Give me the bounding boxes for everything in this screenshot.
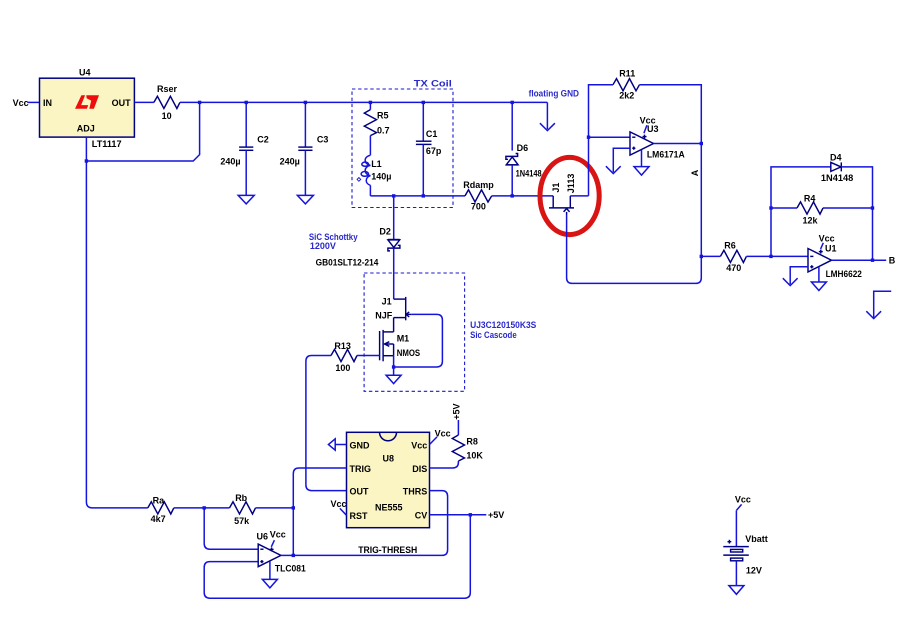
label GB01SLT12-214 <box>316 257 379 267</box>
svg-text:NE555: NE555 <box>375 502 403 512</box>
svg-text:240µ: 240µ <box>220 156 240 166</box>
svg-text:C1: C1 <box>426 129 438 139</box>
wire U3 output to feedback vertical <box>654 143 702 145</box>
svg-text:+5V: +5V <box>452 404 462 420</box>
svg-text:Vcc: Vcc <box>330 499 346 509</box>
wire Rdamp to J113 drain <box>492 195 554 197</box>
svg-text:D2: D2 <box>379 227 391 237</box>
svg-text:Vbatt: Vbatt <box>745 534 768 544</box>
svg-text:UJ3C120150K3S: UJ3C120150K3S <box>470 320 536 330</box>
node floating GND label <box>529 88 580 98</box>
svg-text:LM6171A: LM6171A <box>647 150 685 160</box>
svg-text:57k: 57k <box>234 516 250 526</box>
label UJ3C120150K3S Sic Cascode <box>470 320 536 340</box>
svg-text:GB01SLT12-214: GB01SLT12-214 <box>316 257 379 267</box>
svg-text:R8: R8 <box>466 436 478 446</box>
diode D6 1N4148 (schottky, cathode up) <box>506 143 542 178</box>
junction D2 branch <box>392 194 395 197</box>
floating ground arrow below node B <box>866 291 891 318</box>
wire R4 row <box>771 207 873 209</box>
wire top rail: Rser to floating-gnd corner <box>180 101 548 103</box>
svg-text:LMH6622: LMH6622 <box>826 269 862 279</box>
svg-text:ADJ: ADJ <box>77 123 95 133</box>
svg-text:Vcc: Vcc <box>735 495 751 505</box>
svg-text:1N4148: 1N4148 <box>516 169 542 179</box>
junction U1 output <box>871 259 874 262</box>
floating ground arrow at U3 + input <box>606 166 621 173</box>
diode D2 GB01SLT12-214 (SiC schottky, cathode down) <box>379 227 400 251</box>
junction D6 bottom <box>511 194 514 197</box>
svg-text:D6: D6 <box>517 143 529 153</box>
svg-text:B: B <box>889 256 896 266</box>
wire U1 output to node B <box>832 259 887 261</box>
wire D6 to Rdamp row <box>511 165 513 196</box>
junction C3 top <box>304 101 307 104</box>
wire Vcc diagonal to Vbatt <box>737 504 742 510</box>
resistor R11 <box>613 69 640 101</box>
svg-text:U3: U3 <box>647 124 659 134</box>
svg-text:TRIG: TRIG <box>350 464 372 474</box>
wire divider node down to U6 - input <box>204 508 258 549</box>
junction U3 - input <box>587 136 590 139</box>
svg-text:R4: R4 <box>804 194 816 204</box>
svg-text:OUT: OUT <box>350 486 370 496</box>
svg-text:C3: C3 <box>317 135 329 145</box>
ground below U3 <box>634 150 649 175</box>
wire OUT pin of U4 to Rser <box>134 101 154 103</box>
ground below C3 <box>297 195 313 204</box>
junction U3 output <box>700 142 703 145</box>
svg-text:IN: IN <box>43 98 52 108</box>
svg-text:0.7: 0.7 <box>377 126 390 136</box>
wire D2 to J1 drain <box>393 248 395 299</box>
wire feedback left vertical (D4/R4 to - input) <box>771 167 831 257</box>
op-amp U1 LMH6622 <box>808 233 862 279</box>
diode D4 1N4148 <box>821 152 853 183</box>
junction U1 - input <box>769 255 772 258</box>
ground below U1 <box>811 267 826 291</box>
svg-text:4k7: 4k7 <box>151 514 166 524</box>
node B <box>889 256 896 266</box>
svg-text:DIS: DIS <box>412 464 427 474</box>
ground below U6 <box>262 561 277 588</box>
svg-text:M1: M1 <box>397 334 410 344</box>
junction R4 left <box>769 206 772 209</box>
svg-text:Vcc: Vcc <box>819 233 835 243</box>
junction node A / R6 <box>700 255 703 258</box>
svg-text:2k2: 2k2 <box>619 91 634 101</box>
junction OUT node <box>198 101 201 104</box>
svg-text:A: A <box>690 169 700 176</box>
svg-text:TLC081: TLC081 <box>275 563 306 573</box>
svg-text:RST: RST <box>350 511 369 521</box>
svg-text:Ra: Ra <box>153 495 165 505</box>
port arrow at U8 GND pin <box>328 439 346 450</box>
junction R4 right <box>871 206 874 209</box>
svg-text:10K: 10K <box>466 450 483 460</box>
floating ground arrow at U1 + input <box>783 278 798 285</box>
wire U6 output to threshold net <box>281 554 293 556</box>
svg-text:floating GND: floating GND <box>529 88 580 98</box>
capacitor C1 <box>416 102 442 195</box>
svg-text:J1: J1 <box>551 183 561 193</box>
node Vcc above Vbatt <box>735 495 751 505</box>
svg-text:+5V: +5V <box>488 510 504 520</box>
svg-text:R13: R13 <box>334 341 351 351</box>
svg-text:12k: 12k <box>803 216 819 226</box>
svg-text:67p: 67p <box>426 146 442 156</box>
wire U3 output vertical down to R6/gate loop <box>700 144 702 257</box>
junction divider node <box>203 506 206 509</box>
JFET J1 J113 (rotated, gate down) <box>549 174 576 215</box>
TX Coil dashed box <box>352 78 453 207</box>
wire CV node down and bottom loop to U6 + input <box>204 515 470 598</box>
node Vcc at U8 Vcc pin <box>435 429 451 439</box>
ground below Vbatt <box>729 586 744 595</box>
junction M1 source <box>392 365 395 368</box>
svg-text:J1: J1 <box>382 297 392 307</box>
red ellipse annotation around J113 <box>540 157 599 234</box>
wire jog from OUT node down to ADJ feedback <box>86 102 199 161</box>
wire J1 gate to M1 source <box>394 314 443 367</box>
svg-text:TRIG-THRESH: TRIG-THRESH <box>358 545 417 555</box>
svg-text:700: 700 <box>471 202 486 212</box>
svg-text:Vcc: Vcc <box>270 529 286 539</box>
junction ADJ node <box>85 159 88 162</box>
wire R13 to M1 gate <box>357 355 380 357</box>
wire Vcc to IN pin of U4 <box>28 101 40 103</box>
wire top rail tap to D6 <box>511 102 513 150</box>
svg-text:Rser: Rser <box>157 84 178 94</box>
wire U3 non-inverting input to floating gnd arrow <box>613 148 630 172</box>
svg-text:12V: 12V <box>746 566 762 576</box>
ground below C2 <box>238 195 254 204</box>
node +5V at CV <box>488 510 504 520</box>
node Vcc at U8 RST pin <box>330 499 346 509</box>
wire Rb to TRIG vertical <box>256 507 294 509</box>
resistor R13 <box>331 341 357 373</box>
wire U8 Vcc pin diagonal <box>430 437 438 445</box>
wire Ra to Rb <box>174 507 230 509</box>
wire U8 TRIG down to threshold net <box>293 468 346 555</box>
svg-text:Vcc: Vcc <box>435 429 451 439</box>
resistor R6 <box>720 241 746 273</box>
junction D6 top <box>511 101 514 104</box>
battery Vbatt 12V <box>723 534 768 576</box>
wire J113 gate loop to U3 output node <box>567 215 702 284</box>
svg-text:NMOS: NMOS <box>397 348 420 358</box>
resistor R8 <box>452 435 483 461</box>
floating ground arrow (top rail) <box>540 102 555 130</box>
svg-text:TX Coil: TX Coil <box>414 78 452 88</box>
svg-text:U1: U1 <box>825 244 837 254</box>
svg-text:R11: R11 <box>619 69 635 79</box>
wire R5 to L1 <box>369 136 371 156</box>
junction U6 output/threshold <box>292 554 295 557</box>
resistor Ra <box>148 495 174 524</box>
junction Rb/TRIG <box>292 506 295 509</box>
regulator U4 LT1117 <box>40 67 135 149</box>
wire ADJ pin down-left side to Ra <box>86 137 147 508</box>
svg-text:R5: R5 <box>377 111 389 121</box>
JFET J1 NJF (cascode upper) <box>375 297 411 332</box>
wire R8 top to +5V <box>457 420 459 435</box>
wire U8 CV to +5V <box>430 514 487 516</box>
wire R11 right to U3 output vertical <box>640 85 702 144</box>
svg-text:OUT: OUT <box>112 98 132 108</box>
svg-text:LT1117: LT1117 <box>92 139 122 149</box>
resistor R4 <box>797 194 823 226</box>
capacitor C2 <box>220 102 268 195</box>
svg-text:10: 10 <box>162 111 172 121</box>
op-amp U6 TLC081 <box>257 529 306 573</box>
node +5V above R8 <box>452 404 462 420</box>
junction C1 bottom <box>422 194 425 197</box>
wire U1 inverting input <box>771 255 808 257</box>
wire U1 non-inverting input to floating gnd arrow <box>790 267 808 284</box>
svg-text:D4: D4 <box>830 152 842 162</box>
svg-text:L1: L1 <box>371 159 382 169</box>
node A <box>690 169 700 176</box>
junction C1 top <box>422 101 425 104</box>
svg-text:R6: R6 <box>724 241 736 251</box>
svg-text:U8: U8 <box>383 454 395 464</box>
wire J113 source to R11 net <box>570 195 588 197</box>
junction C2 top <box>245 101 248 104</box>
svg-text:GND: GND <box>350 440 371 450</box>
svg-text:100: 100 <box>335 363 350 373</box>
svg-text:240µ: 240µ <box>280 156 300 166</box>
svg-text:THRS: THRS <box>403 486 428 496</box>
LT logo (red) <box>75 95 99 109</box>
timer U8 NE555 <box>347 432 430 527</box>
wire R13 left down to 555 OUT <box>306 356 347 491</box>
svg-text:1200V: 1200V <box>310 241 336 251</box>
resistor R5 <box>364 102 389 135</box>
wire R6 to U1 inverting node <box>746 255 771 257</box>
svg-text:U6: U6 <box>257 532 269 542</box>
svg-text:1N4148: 1N4148 <box>821 173 853 183</box>
wire Vbatt - to ground <box>735 561 737 586</box>
MOSFET M1 NMOS (cascode lower) <box>380 330 421 361</box>
SiC cascode dashed box <box>364 273 465 391</box>
svg-text:Rdamp: Rdamp <box>463 180 494 190</box>
wire U8 DIS to R8 <box>430 461 459 468</box>
capacitor C3 <box>280 102 329 195</box>
label TRIG-THRESH <box>358 545 417 555</box>
node Vcc (input) <box>13 98 29 108</box>
label SiC Schottky 1200V <box>309 232 358 251</box>
wire M1 source to ground junction <box>393 356 395 376</box>
junction CV/+5V <box>469 513 472 516</box>
wire TX bottom rail to Rdamp <box>370 195 465 197</box>
svg-text:470: 470 <box>726 263 741 273</box>
wire U8 THRS loop to threshold net <box>293 491 447 556</box>
resistor Rb <box>230 493 256 526</box>
inductor L1 <box>357 155 391 185</box>
resistor Rser <box>154 84 180 121</box>
wire node A to R6 <box>701 255 720 257</box>
svg-text:Rb: Rb <box>235 493 247 503</box>
wire Vcc to Vbatt + <box>735 510 737 546</box>
op-amp U3 LM6171A <box>630 115 685 159</box>
svg-text:C2: C2 <box>257 135 269 145</box>
ground below M1 <box>386 375 401 383</box>
wire U8 RST pin diagonal <box>340 508 347 515</box>
junction R5 top <box>369 101 372 104</box>
wire TX bottom node down to D2 <box>393 196 395 239</box>
wire U3 inverting input <box>589 136 631 138</box>
svg-text:140µ: 140µ <box>371 171 391 181</box>
svg-text:U4: U4 <box>79 67 91 77</box>
wire L1 to bottom rail <box>369 185 371 196</box>
resistor Rdamp <box>463 180 494 212</box>
svg-text:CV: CV <box>415 511 428 521</box>
svg-text:Sic Cascode: Sic Cascode <box>470 330 517 340</box>
svg-text:Vcc: Vcc <box>411 440 427 450</box>
svg-text:J113: J113 <box>566 174 576 194</box>
wire R11 loop left side down to J113 source <box>589 85 614 196</box>
wire D4 cathode to right feedback vertical <box>841 167 872 260</box>
svg-text:Vcc: Vcc <box>13 98 29 108</box>
svg-text:NJF: NJF <box>375 310 393 320</box>
